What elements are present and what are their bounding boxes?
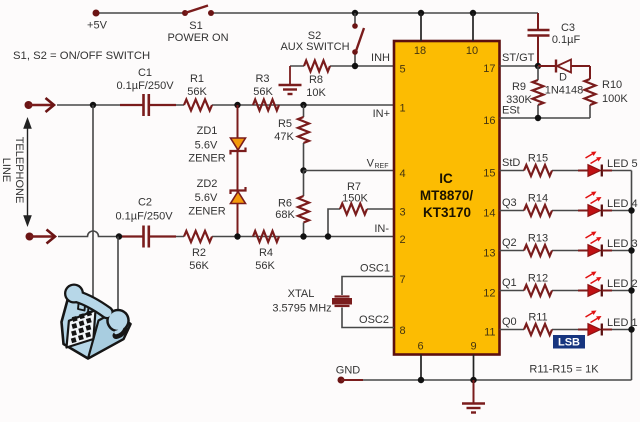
wire phone drop 1 (92, 105, 94, 301)
svg-text:OSC1: OSC1 (360, 263, 390, 275)
svg-text:150K: 150K (342, 193, 368, 205)
svg-text:15: 15 (483, 168, 495, 180)
wire pin10 (472, 13, 474, 41)
svg-text:47K: 47K (274, 131, 294, 143)
svg-text:R12: R12 (528, 273, 548, 285)
svg-text:Q3: Q3 (502, 197, 517, 209)
junction line2-R7 (325, 233, 331, 239)
junction VREF (300, 167, 306, 173)
svg-text:R6: R6 (278, 198, 292, 210)
wire pin9 (473, 355, 475, 381)
op IC MT8870 body (394, 41, 500, 355)
svg-text:68K: 68K (275, 209, 295, 221)
svg-text:6: 6 (417, 341, 423, 353)
junction pin6-gnd (418, 377, 424, 383)
resistor R3 (253, 100, 279, 111)
svg-text:5.6V: 5.6V (195, 140, 218, 152)
svg-text:TELEPHONE: TELEPHONE (13, 137, 25, 204)
capacitor C3 (528, 13, 550, 66)
arrow line2 (30, 235, 55, 237)
svg-text:16: 16 (483, 115, 495, 127)
svg-text:R1: R1 (190, 73, 204, 85)
svg-text:REF: REF (375, 163, 389, 170)
ground main (473, 380, 475, 403)
wire OSC1 (342, 277, 394, 296)
svg-text:Q1: Q1 (502, 277, 517, 289)
junction line1-ZD1 (234, 102, 240, 108)
svg-text:IN+: IN+ (373, 108, 390, 120)
svg-text:0.1µF/250V: 0.1µF/250V (116, 80, 174, 92)
svg-text:S1, S2 = ON/OFF SWITCH: S1, S2 = ON/OFF SWITCH (13, 50, 150, 62)
svg-text:C2: C2 (138, 197, 152, 209)
junction pin10 rail (470, 10, 476, 16)
svg-text:GND: GND (336, 365, 361, 377)
wire INH (290, 65, 394, 67)
svg-text:KT3170: KT3170 (423, 205, 471, 220)
capacitor C2 (120, 226, 176, 248)
svg-text:R8: R8 (309, 74, 323, 86)
svg-text:D: D (559, 72, 567, 84)
wire StD row (500, 170, 632, 172)
svg-text:LINE: LINE (0, 158, 12, 182)
node GND (338, 377, 345, 384)
wire Q3 row (500, 210, 632, 212)
resistor R8 (304, 61, 330, 72)
junction pin18 rail (418, 10, 424, 16)
svg-text:IN-: IN- (374, 223, 389, 235)
svg-text:C3: C3 (561, 22, 575, 34)
junction line1-phone (90, 102, 96, 108)
diode D 1N4148 (538, 60, 590, 73)
svg-text:ZD1: ZD1 (197, 125, 218, 137)
resistor R11 (524, 324, 552, 335)
svg-text:R11-R15 = 1K: R11-R15 = 1K (529, 364, 599, 376)
wire VREF (304, 170, 395, 172)
svg-text:R3: R3 (255, 73, 269, 85)
telephone line arrow (24, 119, 31, 225)
resistor R12 (524, 285, 552, 296)
wire zener chain (237, 105, 239, 237)
LED LED 3 (578, 245, 612, 257)
svg-text:4: 4 (400, 168, 406, 180)
svg-text:+5V: +5V (87, 20, 108, 32)
node line2 input (26, 233, 34, 241)
svg-text:IC: IC (439, 171, 453, 186)
LED LED 2 arrows (586, 272, 602, 284)
junction INH-S2 (352, 63, 358, 69)
resistor R4 (253, 231, 279, 242)
wire pin6 (420, 355, 422, 381)
svg-text:Q0: Q0 (502, 316, 517, 328)
svg-text:R4: R4 (259, 247, 273, 259)
wire Q1 row (500, 290, 632, 292)
wire pin18 (420, 13, 422, 41)
svg-text:56K: 56K (187, 86, 207, 98)
svg-text:R2: R2 (192, 247, 206, 259)
svg-text:3.5795 MHz: 3.5795 MHz (272, 303, 331, 315)
svg-text:R7: R7 (347, 181, 361, 193)
LED LED 2 (578, 285, 612, 297)
svg-text:7: 7 (400, 274, 406, 286)
svg-text:0.1µF/250V: 0.1µF/250V (115, 211, 173, 223)
svg-text:12: 12 (483, 288, 495, 300)
zener ZD1 (231, 138, 246, 155)
svg-text:Q2: Q2 (502, 237, 517, 249)
svg-text:ZD2: ZD2 (197, 178, 218, 190)
wire ESt (500, 117, 591, 119)
junction line2-phone (116, 233, 122, 239)
svg-text:ST/GT: ST/GT (502, 52, 535, 64)
svg-text:5: 5 (400, 64, 406, 76)
LED LED 4 arrows (586, 192, 602, 204)
svg-text:17: 17 (483, 63, 495, 75)
wire OSC2 (342, 308, 394, 328)
svg-text:56K: 56K (253, 86, 273, 98)
junction line2-ZD2 (234, 233, 240, 239)
resistor R7 (328, 209, 394, 237)
svg-text:R9: R9 (512, 81, 526, 93)
wire R8 to ground (289, 66, 291, 84)
svg-text:13: 13 (483, 248, 495, 260)
svg-text:11: 11 (484, 327, 495, 339)
resistor R2 (184, 231, 212, 242)
svg-text:AUX SWITCH: AUX SWITCH (280, 41, 349, 53)
node line1 input (25, 101, 33, 109)
svg-text:5.6V: 5.6V (195, 192, 218, 204)
resistor R13 (524, 245, 552, 256)
junction rail (628, 287, 634, 293)
switch S2 AUX (352, 13, 364, 66)
wire LED rail (631, 171, 633, 381)
LED LED 4 (578, 205, 612, 217)
resistor R5 (303, 105, 305, 117)
junction rail (628, 326, 634, 332)
node +5V (93, 10, 100, 17)
svg-text:100K: 100K (602, 93, 628, 105)
wire phone drop 2 (117, 237, 119, 316)
svg-text:StD: StD (502, 157, 520, 169)
LED LED 1 arrows (586, 311, 602, 323)
LED LED 5 arrows (586, 152, 602, 164)
svg-text:LED 5: LED 5 (607, 158, 638, 170)
switch S1 (182, 6, 214, 17)
resistor R1 (184, 100, 212, 111)
svg-text:ZENER: ZENER (188, 153, 225, 165)
telephone icon (62, 297, 131, 359)
LED LED 3 arrows (586, 232, 602, 244)
svg-text:MT8870/: MT8870/ (420, 188, 474, 203)
junction rail (628, 247, 634, 253)
svg-text:R15: R15 (528, 153, 548, 165)
resistor R15 (524, 165, 552, 176)
svg-text:9: 9 (470, 341, 476, 353)
junction rail (628, 207, 634, 213)
junction line1-R5 (300, 102, 306, 108)
junction STGT (535, 63, 541, 69)
label LSB (553, 335, 585, 349)
svg-text:1: 1 (400, 103, 406, 115)
svg-text:INH: INH (371, 52, 390, 64)
junction pin9-gnd (470, 377, 476, 383)
svg-text:56K: 56K (255, 260, 275, 272)
zener ZD2 (231, 187, 246, 204)
svg-text:0.1µF: 0.1µF (552, 34, 581, 46)
svg-text:C1: C1 (138, 67, 152, 79)
wire Q0 row (500, 329, 632, 331)
svg-text:XTAL: XTAL (288, 288, 315, 300)
wire +5V top rail (96, 12, 538, 14)
junction ESt (535, 115, 541, 121)
svg-text:10: 10 (466, 45, 478, 57)
svg-text:1N4148: 1N4148 (545, 85, 584, 97)
svg-text:R13: R13 (528, 233, 548, 245)
arrow line1 (29, 104, 54, 106)
svg-text:LSB: LSB (558, 337, 580, 349)
wire line2 with hop (58, 231, 394, 237)
junction line2-R6 (300, 233, 306, 239)
wire Q2 row (500, 250, 632, 252)
wire line1 (57, 104, 394, 106)
svg-text:OSC2: OSC2 (359, 314, 389, 326)
svg-text:V: V (367, 158, 375, 170)
svg-text:ESt: ESt (502, 105, 520, 117)
svg-text:R10: R10 (602, 79, 622, 91)
capacitor C1 (120, 94, 176, 116)
crystal XTAL (333, 297, 352, 307)
svg-text:14: 14 (483, 208, 495, 220)
LED LED 1 (578, 324, 612, 336)
svg-text:R5: R5 (278, 118, 292, 130)
resistor R6 (303, 171, 305, 197)
wire bottom (341, 379, 363, 381)
svg-text:10K: 10K (306, 87, 326, 99)
ground R8 (279, 85, 302, 94)
phone handset (64, 284, 130, 336)
svg-text:8: 8 (400, 325, 406, 337)
wire ST/GT (500, 65, 539, 67)
junction S2 top (352, 10, 358, 16)
svg-text:56K: 56K (189, 260, 209, 272)
resistor R9 (537, 66, 539, 80)
svg-text:2: 2 (400, 234, 406, 246)
svg-text:R11: R11 (528, 312, 547, 324)
svg-text:R14: R14 (528, 193, 548, 205)
resistor R10 (589, 66, 591, 79)
svg-text:S1: S1 (189, 20, 202, 32)
svg-text:18: 18 (414, 45, 426, 57)
LED LED 5 (578, 165, 612, 177)
svg-text:ZENER: ZENER (188, 206, 225, 218)
resistor R14 (524, 205, 552, 216)
phone keypad (71, 311, 92, 344)
svg-text:3: 3 (400, 207, 406, 219)
svg-text:POWER ON: POWER ON (167, 32, 228, 44)
